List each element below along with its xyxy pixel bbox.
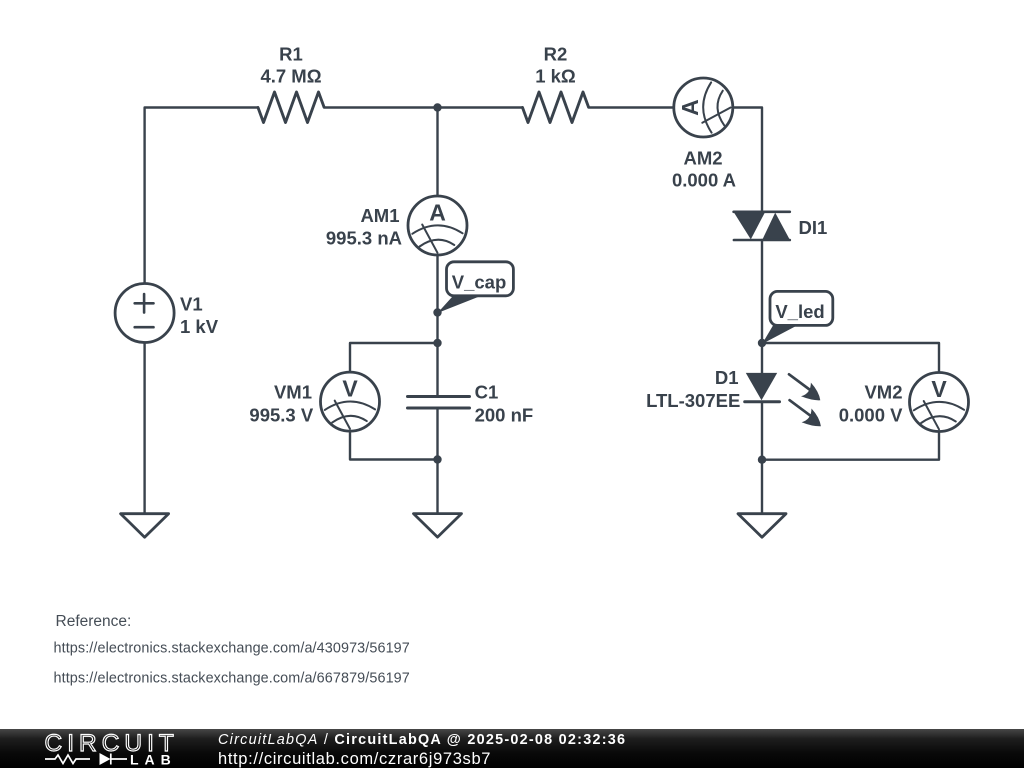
svg-text:V_cap: V_cap (452, 271, 507, 292)
wire VM1 bottom to C1 bottom junction (350, 431, 438, 459)
wire VM2 bottom to LED bottom junction (762, 432, 939, 460)
ammeter AM1 (408, 196, 467, 255)
wire AM1 to C1 (436, 255, 438, 397)
wire node V_led to VM2 top (762, 343, 939, 373)
footer bar (0, 729, 1024, 768)
wire R1 to node A (324, 106, 438, 108)
node dot VM1 bottom junction (433, 455, 441, 463)
flag V_led (762, 291, 833, 344)
node dot V_cap attach (433, 308, 441, 316)
ground (V1) (121, 514, 169, 538)
svg-text:A: A (429, 199, 446, 225)
svg-text:4.7 MΩ: 4.7 MΩ (260, 65, 321, 86)
svg-text:R2: R2 (544, 44, 568, 65)
capacitor C1 (408, 397, 470, 409)
svg-text:https://electronics.stackexcha: https://electronics.stackexchange.com/a/… (54, 641, 410, 657)
voltmeter VM1 (321, 372, 380, 431)
svg-text:V_led: V_led (775, 301, 824, 322)
svg-text:http://circuitlab.com/czrar6j9: http://circuitlab.com/czrar6j973sb7 (218, 750, 491, 768)
wire from V1 top up and right to R1 (145, 108, 258, 284)
svg-text:CircuitLabQA / CircuitLabQA @: CircuitLabQA / CircuitLabQA @ 2025-02-08… (218, 732, 626, 748)
svg-text:LAB: LAB (130, 751, 177, 767)
svg-text:VM2: VM2 (864, 382, 902, 403)
svg-text:DI1: DI1 (799, 217, 828, 238)
svg-text:D1: D1 (715, 367, 739, 388)
resistor R1 (258, 92, 324, 123)
LED D1 (745, 373, 821, 426)
svg-text:AM2: AM2 (683, 147, 722, 168)
ground (C1) (414, 514, 462, 538)
svg-text:995.3 nA: 995.3 nA (326, 227, 402, 248)
svg-text:AM1: AM1 (360, 205, 399, 226)
wire AM2 to DI1 (733, 108, 762, 213)
svg-text:R1: R1 (279, 44, 303, 65)
wire LED to ground (761, 402, 763, 514)
voltmeter VM2 (910, 373, 969, 432)
svg-text:200 nF: 200 nF (475, 405, 534, 426)
svg-text:C1: C1 (475, 382, 499, 403)
svg-text:A: A (677, 99, 703, 116)
ground (LED) (738, 514, 786, 538)
logo waveform resistor and diode (45, 753, 127, 765)
ammeter AM2 (674, 78, 733, 137)
flag V_cap (438, 262, 514, 313)
svg-text:1 kV: 1 kV (180, 316, 219, 337)
wire node A down to AM1 (436, 108, 438, 197)
wire DI1 to node V_led and LED (761, 240, 763, 373)
svg-text:V1: V1 (180, 294, 203, 315)
svg-text:VM1: VM1 (274, 381, 312, 402)
svg-text:995.3 V: 995.3 V (249, 405, 313, 426)
svg-text:https://electronics.stackexcha: https://electronics.stackexchange.com/a/… (54, 670, 410, 686)
svg-text:0.000 A: 0.000 A (672, 170, 736, 191)
voltage source V1 (115, 284, 174, 343)
svg-text:1 kΩ: 1 kΩ (535, 65, 576, 86)
wire node A to R2 (438, 106, 523, 108)
svg-text:Reference:: Reference: (56, 613, 132, 630)
wire R2 to AM2 (589, 106, 674, 108)
wire C1 to ground (436, 408, 438, 514)
svg-text:LTL-307EE: LTL-307EE (646, 390, 740, 411)
svg-text:0.000 V: 0.000 V (839, 405, 903, 426)
node dot VM1 top junction (433, 339, 441, 347)
svg-text:V: V (342, 375, 358, 401)
diac DI1 (734, 212, 790, 240)
node dot V_led junction (758, 339, 766, 347)
node dot VM2 bottom junction (758, 456, 766, 464)
resistor R2 (523, 92, 589, 123)
node junction dot at R1/R2/AM1 (433, 103, 441, 111)
svg-text:V: V (931, 376, 947, 402)
wire V1 bottom to ground (143, 343, 145, 514)
wire node V_cap junction to VM1 top (350, 343, 438, 372)
